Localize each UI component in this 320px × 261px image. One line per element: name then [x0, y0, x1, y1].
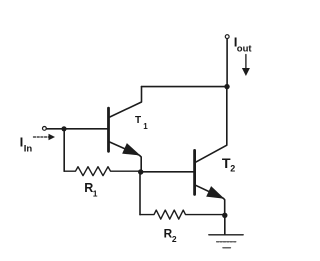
svg-text:In: In — [24, 144, 33, 155]
ground — [209, 234, 243, 236]
wire node A down to R1 — [63, 129, 65, 171]
label R2 — [164, 227, 177, 244]
wire input terminal to T1 base — [46, 128, 108, 130]
svg-text:I: I — [20, 135, 24, 150]
svg-text:1: 1 — [143, 122, 148, 131]
output terminal — [225, 35, 229, 39]
label T1 — [135, 115, 148, 131]
transistor T2 emitter — [195, 185, 225, 216]
wire node D to ground — [224, 215, 226, 234]
wire node B down to R2 — [139, 172, 141, 215]
resistor R1 — [64, 167, 141, 176]
node C junction dot — [224, 84, 229, 89]
label I_in — [20, 135, 33, 155]
label R1 — [84, 181, 98, 198]
transistor T2 base bar — [193, 150, 196, 194]
transistor T1 collector — [110, 87, 142, 117]
svg-text:out: out — [237, 43, 253, 54]
resistor R2 — [140, 210, 225, 219]
transistor T1 base bar — [107, 108, 110, 151]
svg-text:2: 2 — [172, 234, 177, 244]
transistor T2 collector — [195, 87, 226, 163]
transistor T1 emitter arrowhead — [122, 143, 143, 161]
svg-text:1: 1 — [93, 189, 98, 199]
wire top rail T1 collector to node C — [142, 86, 228, 88]
svg-text:2: 2 — [230, 164, 235, 174]
svg-text:T: T — [135, 115, 141, 126]
transistor T1 emitter — [109, 142, 142, 173]
transistor T2 emitter arrowhead — [206, 186, 227, 204]
current arrow I_out — [245, 55, 247, 70]
wire output terminal to node C — [226, 39, 228, 87]
current arrow I_in — [34, 136, 49, 138]
label T2 — [222, 156, 235, 174]
node B junction dot — [138, 169, 143, 174]
input terminal — [43, 126, 47, 130]
node A junction dot — [61, 126, 66, 131]
node D junction dot — [222, 213, 227, 218]
wire node B to T2 base — [141, 171, 194, 173]
label I_out — [234, 34, 253, 54]
